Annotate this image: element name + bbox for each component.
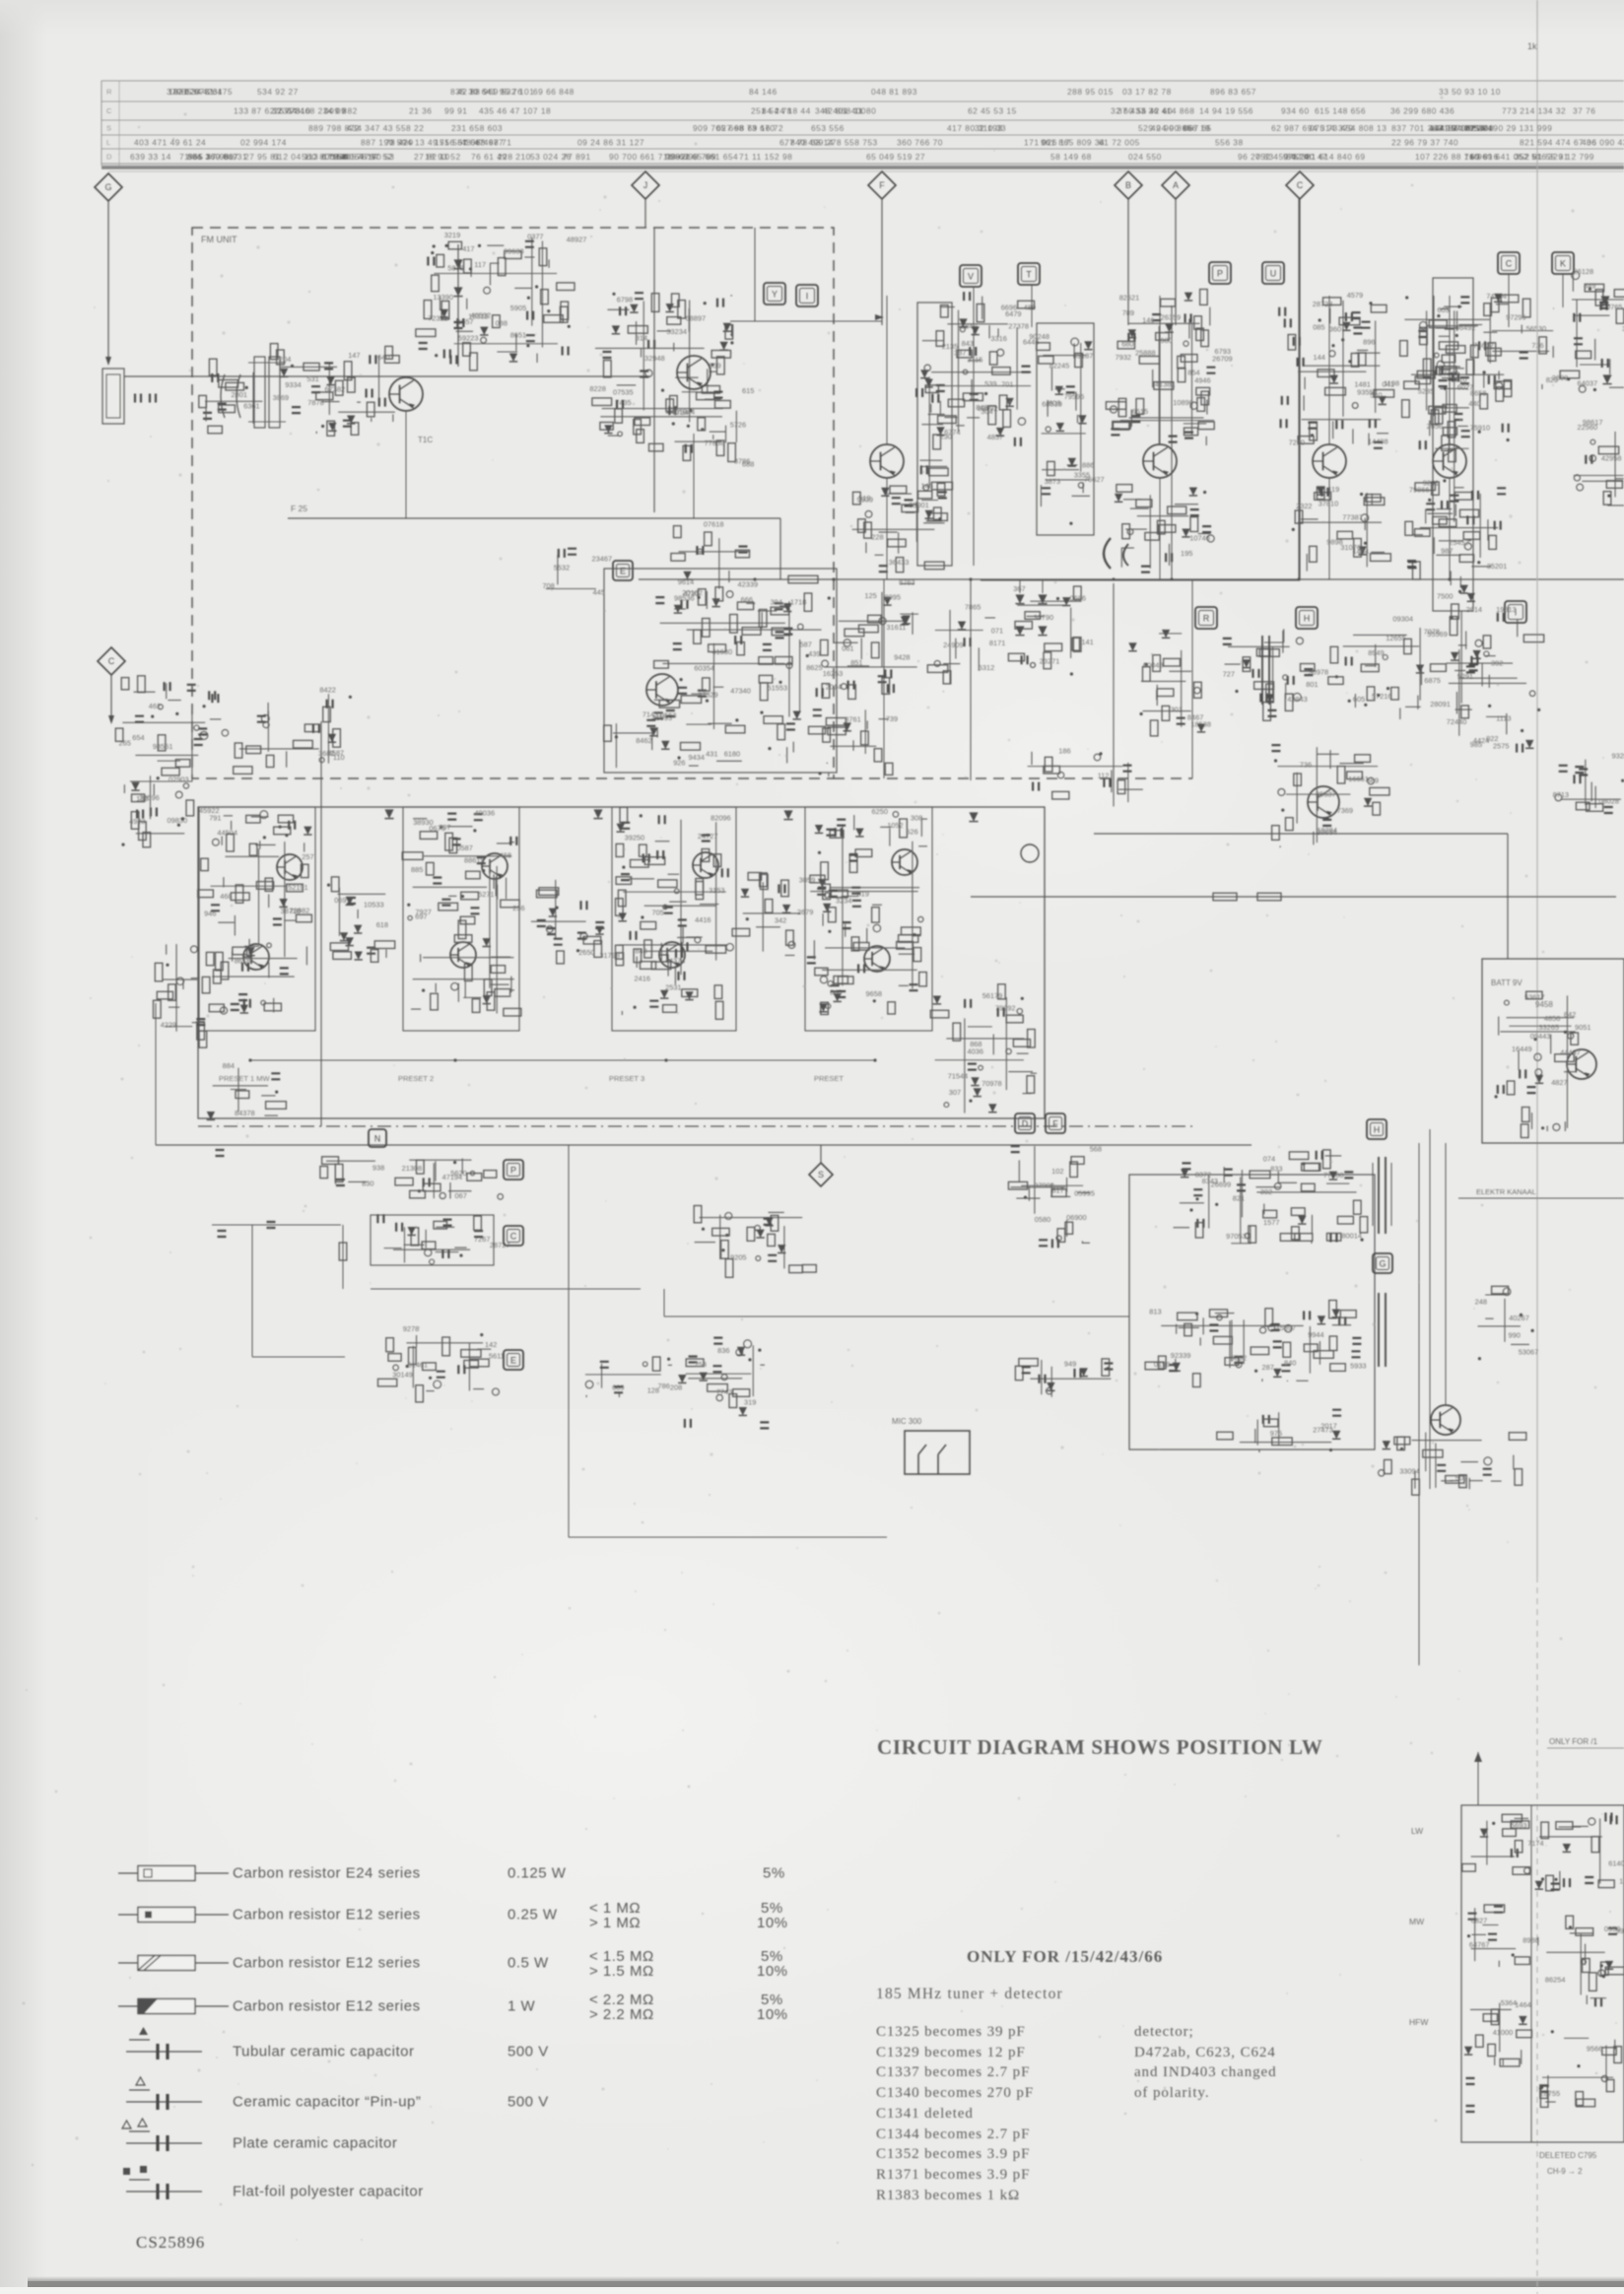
svg-text:86254: 86254: [1545, 1975, 1566, 1984]
svg-text:F: F: [879, 180, 885, 190]
wire FM bottom ext: [834, 777, 1192, 779]
svg-text:60354: 60354: [694, 663, 714, 672]
svg-text:896: 896: [1363, 338, 1375, 347]
wire v 1318: [1298, 199, 1300, 579]
af mid c: [694, 1206, 816, 1278]
transistor IF2a: [482, 853, 507, 879]
svg-text:42 868 11 80: 42 868 11 80: [823, 105, 876, 115]
node R box: [1195, 607, 1217, 629]
node B: [1115, 171, 1142, 199]
svg-text:403 471 49 61 24: 403 471 49 61 24: [134, 137, 206, 147]
node J: [632, 171, 659, 199]
svg-text:6250: 6250: [872, 807, 888, 816]
svg-text:10%: 10%: [757, 1915, 788, 1931]
svg-text:6875: 6875: [1424, 676, 1440, 685]
wire left bus: [320, 721, 322, 1126]
transistor Q4: [870, 444, 904, 478]
right edge parts: [1553, 752, 1624, 813]
svg-text:15312: 15312: [468, 312, 489, 321]
rf amp bias: [335, 346, 399, 422]
antenna input: [102, 369, 124, 424]
svg-text:> 1 MΩ: > 1 MΩ: [589, 1915, 641, 1931]
IF diodes: [384, 809, 393, 818]
svg-text:8651: 8651: [510, 331, 526, 340]
svg-text:329 12 799: 329 12 799: [1548, 152, 1594, 162]
svg-text:D: D: [106, 153, 112, 162]
svg-text:C: C: [1506, 258, 1513, 268]
svg-text:7865: 7865: [965, 602, 981, 611]
svg-text:88615: 88615: [464, 855, 485, 864]
svg-text:4229: 4229: [161, 1020, 176, 1029]
svg-text:39250: 39250: [625, 833, 645, 842]
svg-text:360 766 70: 360 766 70: [897, 137, 943, 147]
svg-text:10533: 10533: [364, 901, 384, 910]
svg-text:4946: 4946: [1194, 376, 1210, 385]
svg-text:62 45 53 15: 62 45 53 15: [968, 105, 1017, 115]
svg-text:ONLY FOR /1: ONLY FOR /1: [1549, 1737, 1598, 1746]
svg-text:CS25896: CS25896: [136, 2233, 205, 2252]
svg-text:98617: 98617: [1583, 418, 1603, 427]
svg-text:5905: 5905: [510, 304, 526, 312]
svg-text:30790: 30790: [1034, 613, 1054, 622]
svg-text:75627: 75627: [1084, 475, 1105, 484]
IF stage box 3: [612, 807, 736, 1031]
diode pair b: [1015, 626, 1024, 635]
svg-text:5271: 5271: [478, 890, 494, 899]
svg-text:Tubular ceramic capacitor: Tubular ceramic capacitor: [233, 2044, 415, 2060]
transistor Q5: [1143, 444, 1177, 478]
svg-text:P: P: [1217, 268, 1223, 278]
svg-text:HFW: HFW: [1409, 2017, 1428, 2027]
svg-text:434 347 43 558 22: 434 347 43 558 22: [347, 123, 424, 133]
svg-text:PRESET 2: PRESET 2: [398, 1074, 434, 1083]
svg-text:589: 589: [1367, 776, 1379, 785]
wire h 589 mid: [981, 579, 1299, 581]
svg-text:CIRCUIT DIAGRAM SHOWS POSITION: CIRCUIT DIAGRAM SHOWS POSITION LW: [877, 1735, 1323, 1759]
svg-text:C1329 becomes 12 pF: C1329 becomes 12 pF: [876, 2045, 1026, 2060]
svg-text:33 50 93 10 10: 33 50 93 10 10: [1439, 87, 1501, 97]
svg-text:9278: 9278: [403, 1324, 419, 1333]
svg-text:64037: 64037: [1578, 378, 1598, 387]
rt parts b: [1535, 1813, 1624, 1891]
svg-text:G: G: [1379, 1258, 1386, 1268]
svg-text:605: 605: [1353, 695, 1365, 704]
bottom scan edge: [28, 2276, 1624, 2282]
node N box: [369, 1129, 386, 1147]
svg-text:0.25 W: 0.25 W: [507, 1907, 558, 1923]
svg-text:> 1.5 MΩ: > 1.5 MΩ: [589, 1963, 654, 1980]
svg-text:59223: 59223: [458, 333, 479, 342]
out right parts: [1475, 1286, 1539, 1360]
svg-text:5620: 5620: [450, 1169, 466, 1178]
svg-text:C1344 becomes 2.7 pF: C1344 becomes 2.7 pF: [876, 2126, 1030, 2142]
node S diamond: [809, 1163, 833, 1186]
svg-text:468: 468: [220, 892, 232, 901]
wire C drop: [1508, 274, 1510, 327]
svg-text:304: 304: [981, 407, 992, 416]
svg-text:T1C: T1C: [418, 436, 433, 444]
transistor IF4b: [864, 946, 890, 972]
svg-text:09638: 09638: [504, 246, 524, 255]
svg-text:8625: 8625: [806, 663, 822, 672]
rt inner line: [1530, 1805, 1532, 2142]
node F: [868, 171, 896, 199]
svg-text:F: F: [1052, 1118, 1058, 1128]
IF stage 1 parts: [198, 811, 314, 1014]
svg-text:27 95 81: 27 95 81: [244, 152, 281, 162]
svg-text:308: 308: [911, 814, 922, 823]
svg-text:539: 539: [984, 379, 996, 388]
svg-text:S: S: [818, 1170, 824, 1180]
svg-text:ELEKTR KANAAL: ELEKTR KANAAL: [1476, 1187, 1536, 1196]
svg-text:836: 836: [717, 1346, 729, 1355]
svg-text:58 149 68: 58 149 68: [1050, 152, 1092, 162]
det out parts: [930, 984, 1037, 1113]
junction 2: [664, 1058, 667, 1061]
vol pot: [1015, 1359, 1113, 1397]
svg-text:419: 419: [1327, 485, 1339, 494]
svg-text:64767: 64767: [1469, 1940, 1490, 1949]
svg-text:067: 067: [455, 1191, 467, 1200]
svg-text:288 95 015: 288 95 015: [1067, 87, 1114, 97]
svg-text:938: 938: [372, 1163, 384, 1172]
svg-text:0159: 0159: [1154, 1360, 1170, 1369]
svg-text:70978: 70978: [981, 1079, 1002, 1088]
svg-text:26359: 26359: [1161, 313, 1182, 322]
svg-text:K: K: [1560, 258, 1566, 268]
svg-text:789: 789: [1122, 308, 1134, 317]
svg-text:319: 319: [744, 1397, 756, 1406]
svg-text:25888: 25888: [1135, 349, 1156, 358]
svg-text:186: 186: [1058, 747, 1070, 756]
svg-text:G: G: [104, 182, 111, 192]
svg-text:32 193: 32 193: [975, 123, 1003, 133]
svg-text:813: 813: [1149, 1308, 1161, 1316]
svg-text:H: H: [1374, 1124, 1381, 1134]
svg-text:069: 069: [334, 896, 346, 905]
svg-text:440: 440: [1468, 399, 1480, 408]
svg-text:791: 791: [209, 814, 221, 823]
svg-text:534 92 27: 534 92 27: [257, 87, 299, 97]
svg-text:500 V: 500 V: [507, 2044, 549, 2060]
node K box: [1552, 252, 1574, 274]
rt antenna: [1477, 1752, 1479, 1805]
svg-text:8713: 8713: [1553, 790, 1569, 799]
wire left v158: [155, 1003, 157, 1145]
svg-text:48927: 48927: [567, 235, 587, 243]
det transformer core: [1261, 636, 1263, 705]
junction bus: [832, 577, 835, 580]
svg-text:82521: 82521: [1119, 293, 1140, 302]
svg-text:Plate ceramic capacitor: Plate ceramic capacitor: [233, 2135, 397, 2152]
IF strip box: [198, 807, 1045, 1118]
svg-text:8422: 8422: [319, 685, 335, 694]
svg-text:99 91: 99 91: [444, 105, 467, 115]
svg-text:500 V: 500 V: [507, 2094, 549, 2111]
svg-text:307: 307: [949, 1088, 961, 1097]
svg-text:Flat-foil polyester capacitor: Flat-foil polyester capacitor: [233, 2184, 424, 2200]
svg-text:6312: 6312: [979, 663, 994, 672]
svg-text:885: 885: [411, 865, 423, 874]
svg-text:BATT 9V: BATT 9V: [1491, 978, 1522, 987]
svg-text:65 049 519 27: 65 049 519 27: [866, 152, 925, 162]
svg-text:C1337 becomes 2.7 pF: C1337 becomes 2.7 pF: [876, 2064, 1030, 2080]
svg-text:727: 727: [1223, 670, 1235, 679]
svg-text:68519: 68519: [1042, 400, 1062, 409]
out top parts: [1224, 1150, 1368, 1244]
svg-text:06900: 06900: [1066, 1213, 1087, 1222]
svg-text:360: 360: [1329, 325, 1341, 334]
det parts a: [1128, 630, 1211, 736]
svg-text:1454: 1454: [1353, 547, 1369, 556]
svg-text:16449: 16449: [1512, 1045, 1532, 1053]
svg-text:048 81 893: 048 81 893: [871, 87, 917, 97]
svg-text:5285: 5285: [1418, 387, 1434, 396]
af preamp b: [395, 1159, 504, 1201]
svg-text:D: D: [1022, 1118, 1029, 1128]
svg-text:653 556: 653 556: [811, 123, 845, 133]
svg-text:Y: Y: [772, 289, 778, 299]
svg-text:462: 462: [149, 702, 161, 710]
svg-text:5%: 5%: [763, 1865, 785, 1882]
out transformer 2: [1378, 1293, 1380, 1367]
svg-text:03 17 82 78: 03 17 82 78: [1122, 87, 1172, 97]
svg-text:3316: 3316: [990, 334, 1006, 343]
node C left: [98, 647, 125, 675]
svg-text:3873: 3873: [1045, 477, 1060, 486]
af preamp a: [320, 1157, 384, 1188]
svg-text:27473: 27473: [1313, 1426, 1333, 1435]
svg-text:6798: 6798: [617, 296, 633, 304]
mixer lower: [693, 434, 695, 518]
svg-text:24909: 24909: [943, 641, 964, 649]
svg-text:25452: 25452: [1449, 538, 1469, 547]
svg-text:5611: 5611: [489, 1352, 505, 1361]
svg-text:8462: 8462: [636, 736, 651, 745]
svg-text:23271: 23271: [1040, 657, 1060, 666]
svg-text:33265: 33265: [1538, 1023, 1559, 1032]
svg-text:71 11 152 98: 71 11 152 98: [739, 152, 792, 162]
svg-text:C1325 becomes 39 pF: C1325 becomes 39 pF: [876, 2024, 1026, 2040]
svg-text:21308: 21308: [402, 1164, 423, 1173]
svg-text:61 72 005: 61 72 005: [1099, 137, 1140, 147]
svg-text:540: 540: [1370, 391, 1382, 400]
svg-text:77387: 77387: [1342, 513, 1363, 522]
svg-text:09304: 09304: [1392, 615, 1413, 624]
FM tuner box: [192, 228, 834, 778]
svg-text:3153: 3153: [709, 886, 724, 895]
svg-text:77 891: 77 891: [563, 152, 591, 162]
svg-text:302: 302: [1260, 1187, 1272, 1196]
svg-text:Ceramic capacitor “Pin-up”: Ceramic capacitor “Pin-up”: [233, 2094, 421, 2111]
svg-text:53067: 53067: [1519, 1348, 1539, 1357]
varicap chain: [457, 244, 459, 367]
svg-text:639 33 14: 639 33 14: [130, 152, 171, 162]
svg-text:526: 526: [906, 828, 917, 837]
det transformer: [1223, 629, 1329, 720]
node C2 box: [504, 1226, 523, 1246]
svg-text:1198: 1198: [1384, 378, 1399, 387]
svg-text:05995: 05995: [1074, 1189, 1095, 1198]
svg-text:3219: 3219: [444, 231, 460, 239]
node C box: [1498, 252, 1520, 274]
svg-text:CH-9 → 2: CH-9 → 2: [1547, 2167, 1583, 2176]
discriminator parts: [652, 588, 844, 767]
battery parts: [1495, 991, 1591, 1137]
svg-text:931 34 31 475: 931 34 31 475: [173, 87, 233, 97]
junction 3: [873, 1058, 876, 1061]
IF interstage 2: [531, 880, 620, 964]
svg-text:84 24 18 44: 84 24 18 44: [762, 105, 811, 115]
svg-text:E: E: [620, 566, 626, 575]
svg-text:640: 640: [377, 353, 389, 362]
legend: [118, 1865, 788, 2200]
transistor IF3a: [693, 852, 718, 878]
wire Y drop: [754, 228, 756, 321]
svg-text:44437: 44437: [1560, 1048, 1581, 1057]
wire h 1336: [664, 1316, 1129, 1317]
svg-text:42843: 42843: [1287, 695, 1308, 704]
svg-text:76 61 49: 76 61 49: [471, 152, 507, 162]
svg-text:D472ab, C623, C624: D472ab, C623, C624: [1134, 2045, 1276, 2060]
svg-text:2656: 2656: [1427, 422, 1443, 431]
svg-text:2322: 2322: [1296, 502, 1312, 510]
out in caps: [1173, 1163, 1231, 1238]
fold line: [1536, 0, 1538, 1577]
transistor IF1a: [277, 854, 303, 880]
svg-text:10%: 10%: [757, 2006, 788, 2023]
agc parts: [1271, 745, 1389, 847]
svg-text:117: 117: [474, 260, 486, 269]
IF stage 2 parts: [402, 808, 524, 1016]
wire y325 arrow: [875, 314, 884, 320]
node P2 box: [504, 1160, 523, 1180]
transistor T1: [389, 377, 423, 411]
svg-text:851: 851: [850, 658, 862, 667]
svg-text:9051: 9051: [1575, 1023, 1590, 1032]
preset pot: [207, 1061, 287, 1120]
svg-text:T: T: [1026, 269, 1032, 279]
svg-text:987: 987: [1441, 547, 1453, 556]
svg-text:842: 842: [1564, 1010, 1576, 1019]
stage0 lower parts: [852, 486, 948, 573]
svg-text:68897: 68897: [686, 314, 707, 323]
svg-text:FM UNIT: FM UNIT: [201, 235, 237, 244]
svg-text:146: 146: [1142, 315, 1154, 324]
wire v 256: [251, 1225, 253, 1357]
svg-text:8949: 8949: [1368, 648, 1384, 657]
svg-text:896 83 657: 896 83 657: [1210, 87, 1256, 97]
svg-text:884: 884: [223, 1061, 235, 1070]
rt caps: [1466, 2078, 1475, 2084]
svg-text:31798: 31798: [599, 951, 620, 960]
svg-text:7078: 7078: [1424, 627, 1440, 636]
paper shading top: [0, 0, 1624, 35]
svg-text:821: 821: [1233, 1194, 1245, 1203]
node Fq box: [1046, 1113, 1065, 1133]
svg-text:1113: 1113: [1496, 713, 1511, 722]
svg-text:8763: 8763: [899, 577, 914, 586]
wire osc v: [653, 228, 655, 512]
svg-text:69 816: 69 816: [1470, 152, 1499, 162]
node I box: [796, 285, 818, 306]
right-fold parts a: [1560, 267, 1624, 392]
svg-text:531: 531: [306, 374, 318, 383]
af mid b: [667, 1338, 769, 1429]
svg-text:52191: 52191: [288, 883, 308, 892]
svg-text:L: L: [106, 138, 110, 147]
svg-text:ONLY FOR /15/42/43/66: ONLY FOR /15/42/43/66: [967, 1947, 1163, 1966]
svg-text:705: 705: [652, 909, 664, 917]
svg-text:4857: 4857: [987, 433, 1003, 441]
svg-text:843: 843: [962, 339, 974, 348]
wire v 985: [970, 579, 972, 780]
wire v 577: [568, 1145, 570, 1537]
IF input box: [917, 303, 952, 566]
svg-text:MIC 300: MIC 300: [892, 1417, 922, 1426]
transistor IF3b: [659, 942, 685, 968]
svg-text:7878: 7878: [307, 398, 323, 407]
node G2 box: [1373, 1253, 1392, 1273]
wire h 1212: [1458, 1197, 1624, 1199]
svg-text:78 97 52: 78 97 52: [357, 152, 393, 162]
right-fold parts b: [1574, 418, 1624, 506]
node E box: [613, 561, 633, 580]
svg-text:417: 417: [462, 244, 474, 253]
svg-text:98551: 98551: [153, 742, 173, 751]
resistor R agc: [1213, 893, 1237, 901]
svg-text:067 65: 067 65: [1184, 123, 1212, 133]
svg-text:84378: 84378: [235, 1109, 255, 1117]
wire v 1130: [1113, 583, 1115, 780]
svg-text:8343: 8343: [1202, 1177, 1218, 1185]
svg-text:7174: 7174: [1527, 1839, 1543, 1848]
IF input parts: [154, 944, 207, 1047]
svg-text:42339: 42339: [738, 580, 759, 589]
mid h parts: [1028, 747, 1143, 807]
svg-text:708: 708: [542, 581, 554, 590]
svg-text:6180: 6180: [724, 750, 740, 759]
svg-text:654: 654: [132, 733, 144, 742]
svg-text:0377: 0377: [527, 232, 543, 240]
svg-text:560 806 58: 560 806 58: [302, 152, 348, 162]
svg-text:568: 568: [1090, 1144, 1102, 1153]
driver parts: [1008, 1144, 1102, 1248]
svg-text:21 36: 21 36: [409, 105, 432, 115]
svg-text:0.5 W: 0.5 W: [507, 1955, 549, 1972]
svg-text:PRESET 3: PRESET 3: [609, 1074, 644, 1083]
svg-text:881 369 56: 881 369 56: [187, 152, 234, 162]
stage2 lower parts: [1292, 485, 1391, 572]
svg-text:701: 701: [1001, 380, 1013, 389]
svg-text:C1352 becomes 3.9 pF: C1352 becomes 3.9 pF: [876, 2146, 1030, 2162]
svg-text:34 24: 34 24: [1286, 152, 1309, 162]
svg-text:07535: 07535: [613, 388, 634, 397]
ferrite antenna: [115, 676, 219, 829]
junction bus: [1297, 577, 1300, 580]
input filter: [270, 344, 361, 437]
fm bias lower: [671, 520, 758, 614]
stage3 lower parts: [1405, 479, 1507, 579]
svg-text:195: 195: [1181, 549, 1192, 558]
svg-text:1577: 1577: [1263, 1218, 1279, 1227]
svg-text:U: U: [1270, 268, 1277, 278]
left col lower: [121, 761, 193, 847]
junction bus: [969, 577, 972, 580]
junction bus: [1112, 577, 1115, 580]
wire h 1243: [212, 1224, 341, 1226]
change list: [876, 2024, 1034, 2203]
